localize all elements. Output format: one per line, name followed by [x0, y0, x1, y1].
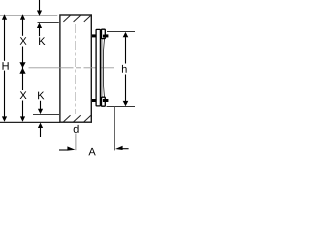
dimension K lower stem above — [40, 101, 42, 110]
bead bottom dark core — [103, 99, 105, 102]
pipe body — [60, 15, 91, 122]
flange bar lower left — [92, 99, 96, 102]
extension line K lower — [33, 114, 59, 116]
dimension K upper stem below — [39, 28, 41, 36]
fitting bead top — [102, 29, 106, 38]
label h — [122, 65, 127, 73]
dimension X lower arrow bottom — [20, 116, 25, 121]
bead top dark core — [103, 35, 105, 38]
extension line top (pipe top level) — [0, 15, 57, 17]
dimension X junction stem — [22, 63, 24, 74]
dimension A tail left — [59, 149, 68, 151]
dimension H line upper — [4, 20, 6, 61]
dimension h arrow top — [123, 32, 129, 37]
dimension h line lower — [125, 75, 127, 102]
pipe hatch top 2 — [74, 15, 81, 22]
dimension X upper line bottom — [22, 47, 24, 63]
dimension A arrow left — [115, 146, 123, 150]
label d — [74, 125, 79, 133]
dimension K lower arrow up — [38, 123, 43, 128]
dimension K upper arrow up — [37, 23, 42, 28]
label X upper — [20, 37, 27, 45]
vertical centerline — [75, 24, 77, 114]
label K upper — [39, 37, 45, 45]
label X lower — [20, 91, 27, 99]
pipe hatch bottom 2 — [74, 115, 81, 122]
fitting shell right wall — [104, 39, 105, 97]
fitting shell left wall — [101, 39, 103, 98]
flange bar upper right — [105, 34, 108, 37]
dimension X lower arrow top — [19, 68, 25, 74]
h extension line top — [107, 31, 135, 33]
dimension K upper arrow down — [37, 11, 42, 16]
dimension H arrow top — [2, 14, 7, 20]
fitting bead bottom — [102, 97, 106, 106]
dimension X lower line bottom — [22, 101, 24, 118]
pipe hatch bottom 3 — [84, 115, 91, 122]
flange bar lower right — [105, 99, 108, 102]
label K lower — [38, 92, 44, 100]
h extension line bottom — [107, 106, 136, 108]
horizontal centerline — [29, 67, 115, 69]
dimension K lower arrow down — [38, 109, 43, 114]
dimension h arrow bottom — [123, 101, 129, 106]
extension line K upper — [38, 22, 59, 24]
label A — [88, 148, 95, 156]
dimension X upper arrow top — [20, 14, 25, 20]
vertical centerline lower segment (A left extension) — [75, 134, 77, 151]
dimension H line lower — [4, 71, 6, 118]
dimension K lower stem below — [40, 128, 42, 137]
dimension X upper arrow bottom — [19, 62, 25, 68]
dimension A arrow right — [67, 146, 75, 150]
fitting sleeve tube — [96, 29, 100, 106]
pipe hatch top 3 — [84, 15, 91, 22]
A right extension line — [114, 107, 116, 151]
dimension X lower line top — [22, 74, 24, 91]
pipe hatch bottom 1 — [63, 115, 70, 122]
bottom base line (pipe bottom level) — [0, 121, 60, 123]
dimension A tail right — [122, 148, 128, 150]
flange bar upper left — [92, 34, 96, 37]
dimension h line upper — [125, 37, 127, 63]
dimension X upper line top — [22, 20, 24, 36]
label H — [3, 62, 9, 70]
pipe hatch top 1 — [63, 15, 70, 22]
dimension H arrow bottom — [2, 116, 7, 121]
dimension K upper stem above — [39, 0, 41, 11]
